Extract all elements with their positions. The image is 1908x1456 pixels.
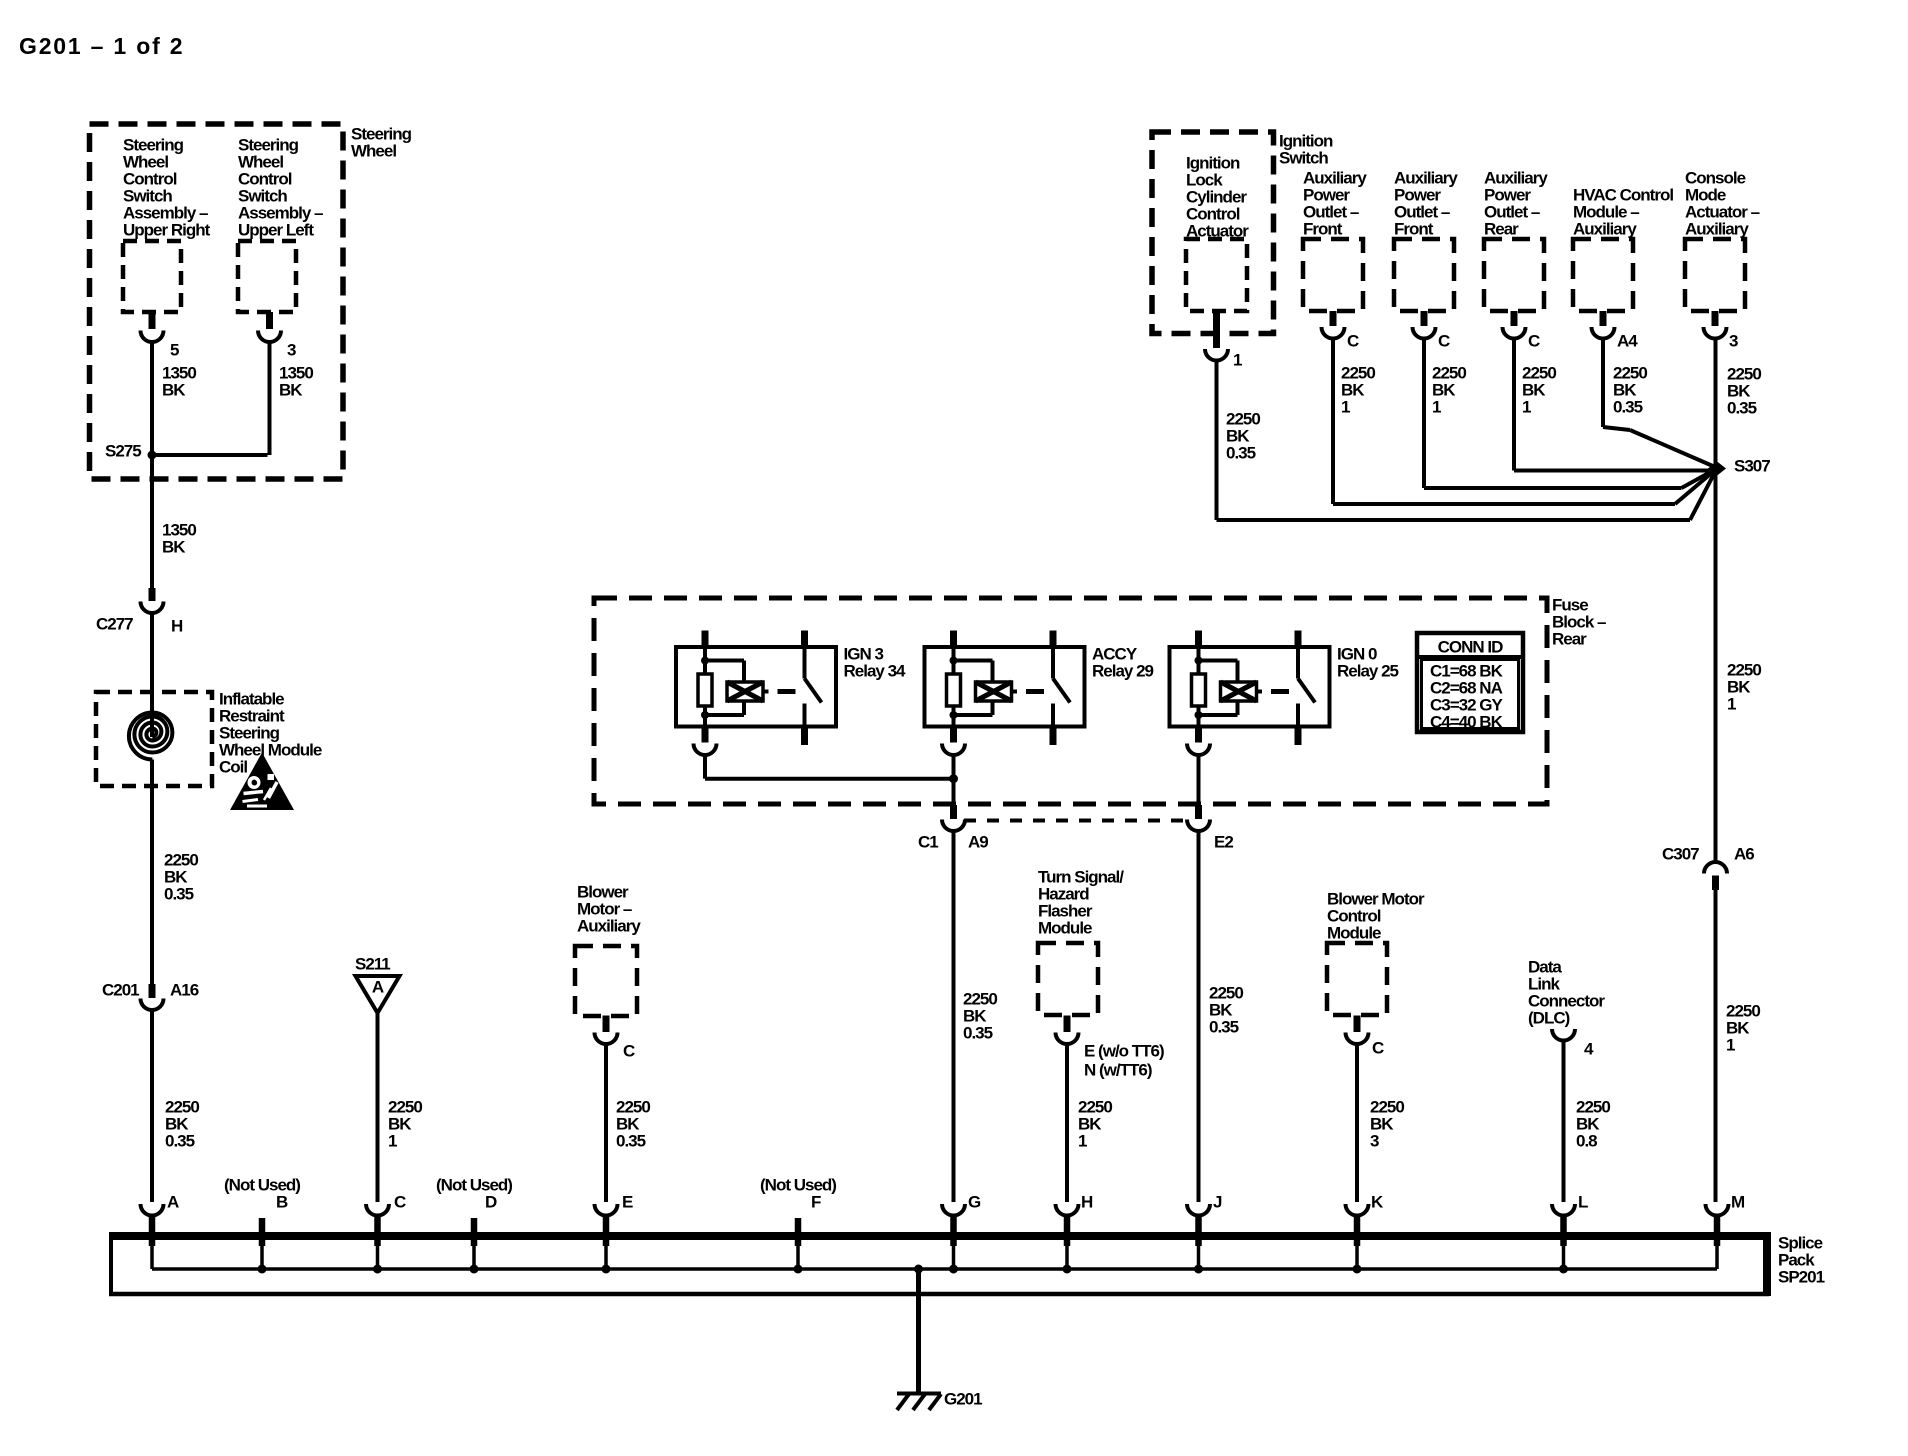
svg-text:1: 1 xyxy=(388,1131,397,1150)
svg-text:5: 5 xyxy=(170,340,179,359)
svg-text:C: C xyxy=(1372,1038,1384,1057)
svg-text:Coil: Coil xyxy=(219,757,247,776)
svg-text:(DLC): (DLC) xyxy=(1528,1008,1570,1027)
svg-text:1: 1 xyxy=(1233,350,1242,369)
svg-text:G201: G201 xyxy=(944,1389,982,1408)
svg-text:A9: A9 xyxy=(968,832,988,851)
svg-text:C277: C277 xyxy=(96,614,133,633)
svg-text:3: 3 xyxy=(287,340,296,359)
svg-text:C: C xyxy=(394,1192,406,1211)
svg-text:(Not Used): (Not Used) xyxy=(760,1175,836,1194)
svg-text:Auxiliary: Auxiliary xyxy=(577,916,641,935)
svg-text:C4=40 BK: C4=40 BK xyxy=(1430,712,1504,731)
svg-text:(Not Used): (Not Used) xyxy=(224,1175,300,1194)
svg-text:SP201: SP201 xyxy=(1778,1267,1825,1286)
svg-text:A16: A16 xyxy=(170,980,199,999)
svg-text:J: J xyxy=(1213,1192,1222,1211)
svg-text:0.8: 0.8 xyxy=(1576,1131,1597,1150)
svg-text:F: F xyxy=(811,1192,821,1211)
svg-text:G: G xyxy=(968,1192,981,1211)
svg-text:1: 1 xyxy=(1522,397,1531,416)
svg-text:1: 1 xyxy=(1432,397,1441,416)
svg-text:Rear: Rear xyxy=(1552,629,1587,648)
svg-text:E2: E2 xyxy=(1214,832,1233,851)
svg-text:B: B xyxy=(276,1192,288,1211)
svg-text:Front: Front xyxy=(1394,219,1434,238)
svg-text:0.35: 0.35 xyxy=(1209,1017,1239,1036)
svg-text:Relay 29: Relay 29 xyxy=(1092,661,1154,680)
svg-text:C: C xyxy=(1347,331,1359,350)
svg-text:K: K xyxy=(1371,1192,1384,1211)
svg-text:Auxiliary: Auxiliary xyxy=(1573,219,1637,238)
svg-text:A6: A6 xyxy=(1734,844,1754,863)
svg-text:0.35: 0.35 xyxy=(963,1023,993,1042)
svg-text:0.35: 0.35 xyxy=(1226,443,1256,462)
svg-text:G201 – 1 of 2: G201 – 1 of 2 xyxy=(19,33,184,59)
svg-text:(Not Used): (Not Used) xyxy=(436,1175,512,1194)
svg-text:BK: BK xyxy=(162,380,186,399)
svg-text:3: 3 xyxy=(1729,331,1738,350)
svg-text:CONN ID: CONN ID xyxy=(1438,637,1504,656)
svg-text:C: C xyxy=(623,1041,635,1060)
svg-text:Front: Front xyxy=(1303,219,1343,238)
svg-text:E (w/o TT6): E (w/o TT6) xyxy=(1084,1041,1164,1060)
svg-text:Relay 25: Relay 25 xyxy=(1337,661,1399,680)
svg-text:C307: C307 xyxy=(1662,844,1699,863)
svg-text:C1: C1 xyxy=(918,832,938,851)
svg-text:Rear: Rear xyxy=(1484,219,1519,238)
svg-text:H: H xyxy=(1081,1192,1093,1211)
svg-text:C: C xyxy=(1528,331,1540,350)
svg-text:N (w/TT6): N (w/TT6) xyxy=(1084,1060,1152,1079)
svg-text:H: H xyxy=(171,616,183,635)
svg-text:S275: S275 xyxy=(105,441,141,460)
svg-text:D: D xyxy=(485,1192,497,1211)
svg-text:S211: S211 xyxy=(355,954,390,973)
svg-text:BK: BK xyxy=(279,380,303,399)
svg-text:Switch: Switch xyxy=(1279,148,1328,167)
svg-text:Wheel: Wheel xyxy=(351,141,396,160)
svg-text:3: 3 xyxy=(1370,1131,1379,1150)
svg-text:A: A xyxy=(372,977,384,996)
svg-text:S307: S307 xyxy=(1734,456,1770,475)
svg-text:Module: Module xyxy=(1038,918,1092,937)
svg-text:L: L xyxy=(1578,1192,1588,1211)
svg-text:A: A xyxy=(167,1192,179,1211)
svg-text:Relay 34: Relay 34 xyxy=(844,661,907,680)
svg-text:Upper Right: Upper Right xyxy=(123,220,211,239)
svg-text:Module: Module xyxy=(1327,923,1381,942)
svg-text:M: M xyxy=(1731,1192,1745,1211)
svg-text:1: 1 xyxy=(1341,397,1350,416)
svg-text:0.35: 0.35 xyxy=(165,1131,195,1150)
svg-text:C: C xyxy=(1438,331,1450,350)
svg-text:0.35: 0.35 xyxy=(616,1131,646,1150)
svg-text:1: 1 xyxy=(1078,1131,1087,1150)
svg-text:0.35: 0.35 xyxy=(164,884,194,903)
svg-text:1: 1 xyxy=(1727,694,1736,713)
svg-text:E: E xyxy=(622,1192,633,1211)
svg-text:BK: BK xyxy=(162,537,186,556)
svg-text:Auxiliary: Auxiliary xyxy=(1685,219,1749,238)
svg-text:0.35: 0.35 xyxy=(1613,397,1643,416)
svg-text:1: 1 xyxy=(1726,1035,1735,1054)
svg-text:0.35: 0.35 xyxy=(1727,398,1757,417)
svg-text:A4: A4 xyxy=(1617,331,1638,350)
svg-text:C201: C201 xyxy=(102,980,139,999)
svg-text:Upper Left: Upper Left xyxy=(238,220,314,239)
